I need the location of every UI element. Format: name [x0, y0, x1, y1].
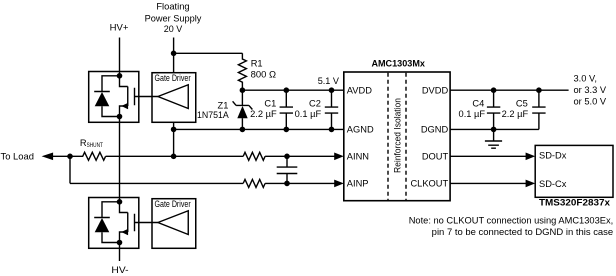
pin SD-Cx	[539, 179, 567, 189]
resistor AINN filter	[243, 152, 265, 160]
op-amp U2 gate driver top box	[152, 73, 196, 123]
junction C4 bottom / ground	[491, 127, 497, 133]
wire DOUT to SD-Dx	[450, 153, 535, 161]
label Z1 1N751A	[197, 100, 230, 120]
resistor RSHUNT	[70, 152, 106, 160]
transistor Q1 top IGBT box	[89, 72, 139, 123]
diode D2 freewheel	[94, 202, 119, 243]
label R1 value	[251, 59, 276, 80]
wire U2 ground stub	[173, 122, 175, 129]
node HV+ label	[110, 23, 129, 33]
transistor Q2 bottom IGBT box	[89, 198, 139, 249]
resistor R1	[238, 53, 246, 90]
junction R1 / AVDD rail	[240, 87, 246, 93]
svg-text:0.1 µF: 0.1 µF	[295, 109, 322, 119]
svg-text:CLKOUT: CLKOUT	[410, 179, 448, 189]
svg-text:20 V: 20 V	[164, 24, 183, 34]
junction C1 bottom	[284, 127, 290, 133]
wire CLKOUT to SD-Cx	[450, 180, 535, 188]
wire shunt to AINN filter	[106, 155, 244, 157]
svg-text:HV-: HV-	[111, 265, 128, 275]
svg-text:DGND: DGND	[421, 125, 449, 135]
wire floating supply down to gate driver U2	[173, 38, 175, 73]
node HV- label	[111, 265, 128, 275]
label Reinforced Isolation	[393, 98, 403, 173]
junction C5 top	[536, 87, 542, 93]
svg-text:800 Ω: 800 Ω	[251, 70, 276, 80]
junction gate driver / AGND rail	[171, 127, 177, 133]
label C4 value	[459, 99, 486, 119]
node To Load label	[1, 152, 35, 162]
zener Z1	[233, 90, 253, 129]
svg-text:TMS320F2837x: TMS320F2837x	[539, 198, 611, 208]
wire DGND rail	[450, 128, 539, 130]
pin DVDD	[422, 85, 449, 95]
pin DGND	[421, 125, 449, 135]
svg-text:SD-Cx: SD-Cx	[539, 179, 567, 189]
svg-text:3.0 V,: 3.0 V,	[574, 74, 597, 84]
wire AINP from load node	[70, 182, 243, 184]
transistor Q2 internals	[120, 202, 158, 243]
svg-text:2.2 µF: 2.2 µF	[502, 109, 529, 119]
ground	[485, 129, 502, 148]
junction supply/R1	[171, 51, 177, 57]
svg-text:AINN: AINN	[347, 151, 369, 161]
svg-text:AMC1303Mx: AMC1303Mx	[371, 59, 425, 69]
pin CLKOUT	[410, 179, 448, 189]
wire isolation barrier dashed lines	[388, 73, 406, 200]
svg-text:or 3.3 V: or 3.3 V	[574, 85, 607, 95]
pin AGND	[347, 125, 374, 135]
capacitor C5	[532, 90, 545, 129]
wire phase node Q1 emitter to Q2 collector	[119, 117, 121, 202]
junction filter cap top	[284, 154, 290, 160]
label TMS320F2837x	[539, 198, 611, 208]
wire DVDD rail	[450, 89, 568, 91]
svg-text:0.1 µF: 0.1 µF	[459, 109, 486, 119]
svg-text:Gate Driver: Gate Driver	[155, 199, 191, 209]
wire load node down to AINP line	[69, 156, 71, 183]
wire AVDD rail (5.1 V net)	[242, 89, 343, 91]
capacitor C4	[487, 90, 500, 129]
svg-text:AINP: AINP	[347, 179, 369, 189]
capacitor differential filter	[277, 156, 298, 183]
svg-text:C4: C4	[472, 99, 484, 109]
svg-text:AGND: AGND	[347, 125, 374, 135]
label C1 value	[250, 99, 277, 119]
node 5.1 V label	[318, 76, 340, 86]
op-amp U4 TMS320F2837x box	[535, 145, 613, 197]
junction shunt / AGND tap	[171, 154, 177, 160]
label Gate Driver bottom	[155, 199, 191, 209]
svg-text:Gate Driver: Gate Driver	[155, 73, 191, 83]
wire to-load arrow	[42, 153, 70, 161]
wire AGND to shunt node	[173, 129, 175, 156]
svg-text:HV+: HV+	[110, 23, 129, 33]
svg-text:Reinforced Isolation: Reinforced Isolation	[393, 98, 403, 173]
junction Q2 emitter	[117, 240, 123, 246]
junction C1 top	[284, 87, 290, 93]
junction C2 top	[329, 87, 335, 93]
wire AINP into IC	[265, 180, 344, 188]
svg-text:2.2 µF: 2.2 µF	[250, 109, 277, 119]
svg-text:Floating: Floating	[156, 2, 189, 12]
pin DOUT	[422, 151, 449, 161]
capacitor C1	[280, 90, 293, 129]
pin AVDD	[347, 85, 372, 95]
capacitor C2	[325, 90, 338, 129]
junction load node	[67, 154, 73, 160]
label C2 value	[295, 99, 322, 119]
junction Q1 emitter	[117, 114, 123, 120]
svg-text:C1: C1	[264, 99, 276, 109]
node Floating Power Supply label	[145, 2, 202, 34]
junction C4 top	[491, 87, 497, 93]
label note text	[409, 216, 614, 238]
op-amp U3 gate driver bottom box	[152, 199, 196, 249]
svg-text:C5: C5	[516, 99, 528, 109]
label Gate Driver top	[155, 73, 191, 83]
svg-text:AVDD: AVDD	[347, 85, 372, 95]
wire HV- stub	[119, 243, 121, 262]
svg-text:To Load: To Load	[1, 152, 35, 162]
junction Z1 / AGND rail	[240, 127, 246, 133]
transistor Q1 internals	[120, 76, 158, 117]
wire AINN into IC	[265, 153, 344, 161]
junction C2 bottom	[329, 127, 335, 133]
junction Q1 collector	[117, 73, 123, 79]
op-amp U3 triangle	[158, 211, 188, 235]
pin AINN	[347, 151, 369, 161]
pin SD-Dx	[539, 151, 567, 161]
junction Q2 collector	[117, 199, 123, 205]
node DVDD supply label	[574, 74, 607, 107]
wire AGND rail	[174, 128, 344, 130]
label RSHUNT	[80, 138, 103, 149]
svg-text:5.1 V: 5.1 V	[318, 76, 340, 86]
resistor AINP filter	[243, 179, 265, 187]
wire supply branch to R1	[174, 52, 243, 54]
svg-text:pin 7 to be connected to DGND: pin 7 to be connected to DGND in this ca…	[432, 227, 614, 237]
pin AINP	[347, 179, 369, 189]
svg-text:or 5.0 V: or 5.0 V	[574, 96, 607, 106]
svg-text:DOUT: DOUT	[422, 151, 449, 161]
op-amp U1 AMC1303Mx box	[344, 72, 450, 201]
op-amp U2 triangle	[158, 85, 188, 109]
label C5 value	[502, 99, 529, 119]
wire HV+ to Q1 collector	[119, 38, 121, 76]
svg-text:Note: no CLKOUT connection usi: Note: no CLKOUT connection using AMC1303…	[409, 216, 614, 226]
svg-text:Z1: Z1	[218, 100, 229, 110]
svg-text:SD-Dx: SD-Dx	[539, 151, 567, 161]
svg-text:Power Supply: Power Supply	[145, 13, 202, 23]
svg-text:DVDD: DVDD	[422, 85, 449, 95]
svg-text:1N751A: 1N751A	[197, 110, 230, 120]
label AMC1303Mx title	[371, 59, 425, 69]
svg-text:C2: C2	[309, 99, 321, 109]
diode D1 freewheel	[94, 76, 119, 117]
junction filter cap bottom	[284, 181, 290, 187]
svg-text:R1: R1	[251, 59, 263, 69]
